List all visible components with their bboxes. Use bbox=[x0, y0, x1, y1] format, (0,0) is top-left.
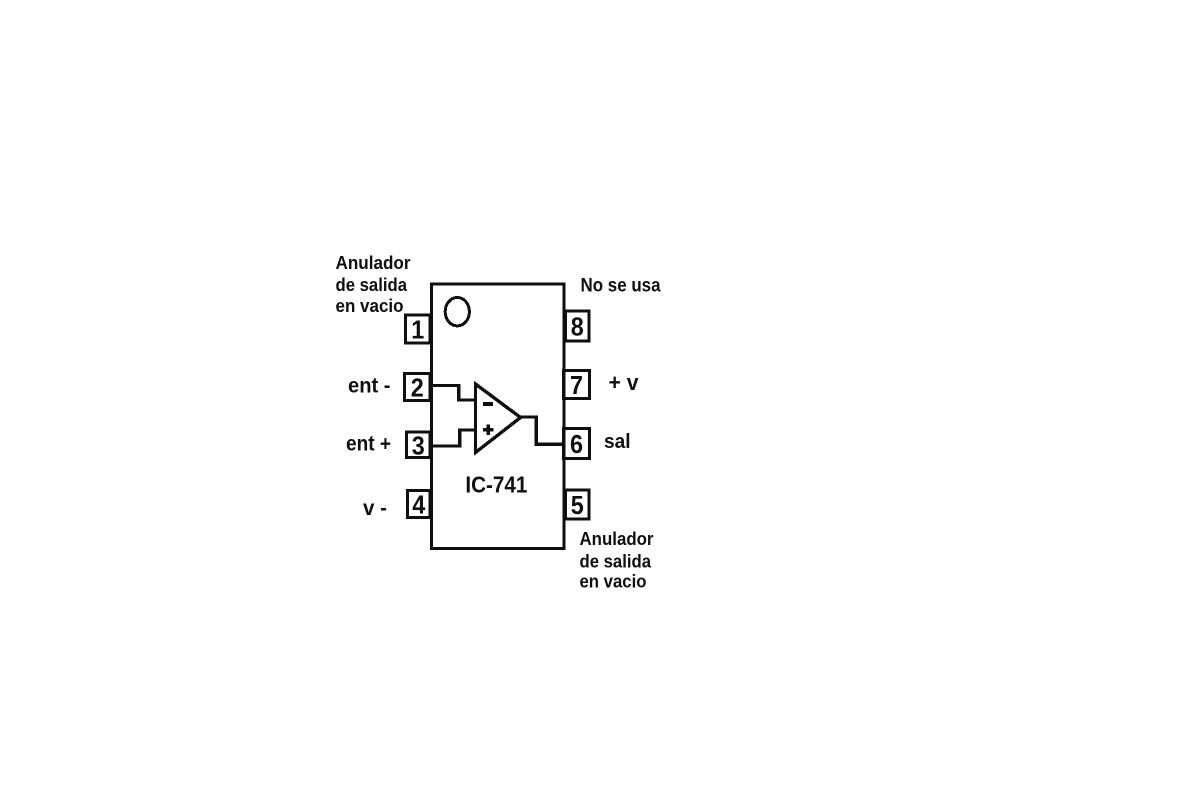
svg-text:4: 4 bbox=[412, 490, 425, 520]
op-amp triangle bbox=[476, 384, 521, 453]
svg-text:7: 7 bbox=[570, 370, 583, 400]
op-amp U1 IC body (DIP-8 outline) bbox=[432, 284, 565, 549]
svg-text:+ v: + v bbox=[609, 370, 640, 395]
svg-text:en vacio: en vacio bbox=[336, 296, 404, 316]
pin 2 box bbox=[405, 374, 431, 401]
svg-text:sal: sal bbox=[604, 431, 631, 453]
wire pin3 to non-inverting input bbox=[431, 430, 475, 446]
svg-text:v -: v - bbox=[363, 497, 387, 520]
pin 1 index circle bbox=[445, 298, 469, 326]
svg-text:ent -: ent - bbox=[348, 375, 391, 398]
pin 3 box bbox=[407, 432, 431, 458]
svg-text:3: 3 bbox=[412, 430, 425, 460]
svg-text:5: 5 bbox=[571, 490, 584, 520]
svg-text:8: 8 bbox=[571, 312, 584, 342]
pin 1 box bbox=[406, 315, 431, 343]
svg-text:Anulador: Anulador bbox=[336, 253, 411, 273]
pin 7 box bbox=[564, 371, 590, 399]
svg-text:Anulador: Anulador bbox=[580, 529, 654, 549]
pin 8 box bbox=[566, 311, 590, 341]
wire output to pin6 bbox=[520, 417, 564, 444]
pin 6 box bbox=[564, 429, 590, 459]
svg-text:ent +: ent + bbox=[346, 433, 391, 456]
svg-text:en vacio: en vacio bbox=[580, 572, 647, 592]
svg-text:IC-741: IC-741 bbox=[465, 472, 527, 498]
pin 5 box bbox=[566, 490, 590, 519]
svg-text:2: 2 bbox=[411, 373, 424, 403]
op-amp plus input label bbox=[483, 424, 493, 435]
svg-text:No se usa: No se usa bbox=[581, 276, 661, 297]
svg-text:de salida: de salida bbox=[336, 275, 408, 295]
svg-text:6: 6 bbox=[570, 429, 583, 459]
svg-text:de salida: de salida bbox=[580, 552, 652, 572]
wire pin2 to inverting input bbox=[432, 386, 475, 401]
op-amp minus input label bbox=[483, 402, 493, 406]
pin 4 box bbox=[408, 491, 431, 518]
svg-text:1: 1 bbox=[411, 315, 424, 345]
